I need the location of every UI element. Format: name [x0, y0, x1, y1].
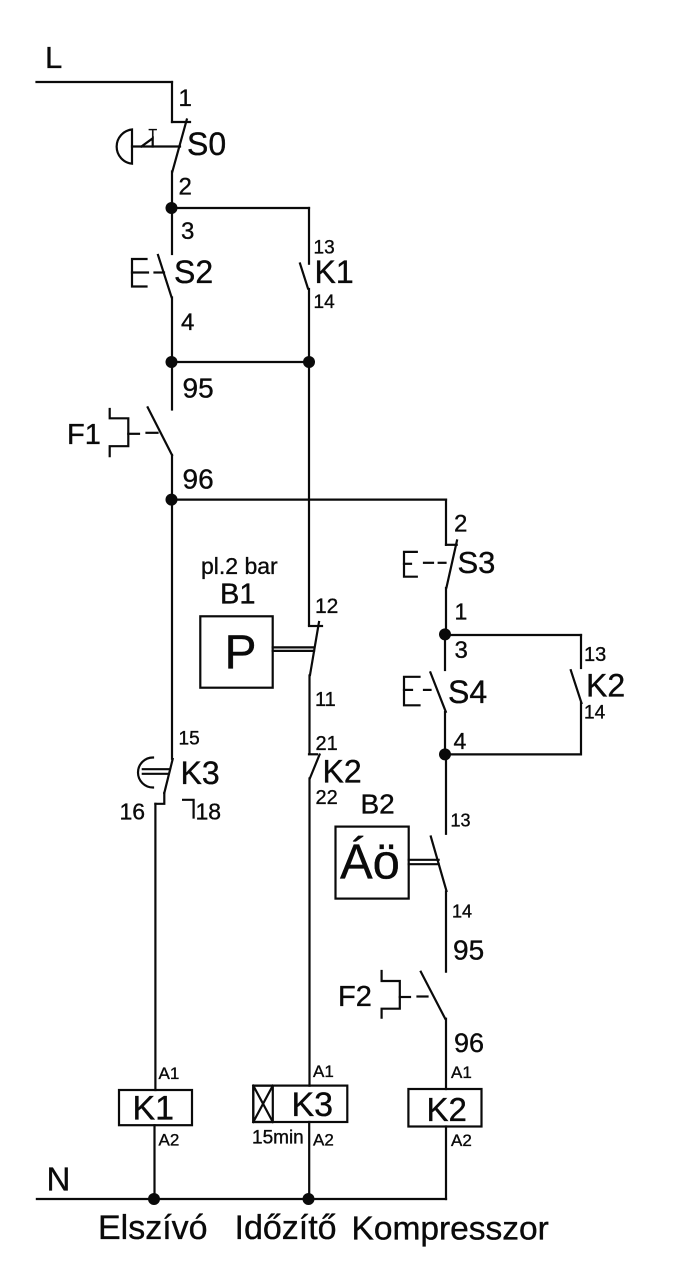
wire to S3 branch: [172, 499, 446, 501]
pin 13 K2: [584, 644, 606, 666]
label K3: [181, 755, 220, 791]
wire K1 top terminal: [308, 208, 310, 264]
node junction 3: [439, 628, 451, 640]
svg-text:A1: A1: [313, 1062, 334, 1081]
mushroom head actuator S0: [117, 130, 180, 164]
svg-text:L: L: [45, 40, 62, 75]
pin 13 K1: [314, 238, 335, 259]
wire B2 to F2: [445, 892, 447, 972]
wire N rail: [37, 1198, 446, 1200]
wire branch to K1: [172, 207, 309, 209]
pin 13 B2: [451, 811, 471, 831]
svg-text:A2: A2: [313, 1131, 334, 1150]
label K2 middle: [323, 754, 362, 790]
node junction 4: [439, 748, 451, 760]
wire F1 top terminal: [171, 362, 173, 410]
svg-text:15: 15: [179, 728, 200, 749]
label S3: [458, 545, 496, 580]
actuator S2: [132, 259, 164, 287]
svg-text:pl.2 bar: pl.2 bar: [201, 553, 278, 579]
wire B2 contact top terminal: [445, 754, 447, 833]
svg-text:P: P: [225, 627, 257, 680]
svg-text:96: 96: [454, 1028, 484, 1058]
wire S4 top terminal: [444, 635, 446, 670]
label S2: [174, 254, 213, 290]
pin 12: [315, 595, 338, 618]
svg-text:1: 1: [455, 599, 468, 625]
svg-text:22: 22: [316, 787, 338, 809]
svg-text:4: 4: [181, 309, 194, 336]
node N-K3: [303, 1193, 315, 1205]
label pl.2 bar: [201, 553, 278, 579]
pin 14 K1: [314, 292, 336, 313]
svg-text:21: 21: [316, 733, 338, 755]
coil K3 timer: [253, 1086, 347, 1124]
pin 95 F2: [453, 934, 484, 965]
label B1: [220, 579, 255, 611]
svg-text:3: 3: [455, 637, 468, 664]
wire S2 bottom terminal: [171, 298, 173, 363]
svg-text:15min: 15min: [252, 1128, 304, 1149]
label B2: [361, 789, 395, 820]
pin 96 F1: [183, 464, 214, 495]
coil K1: [119, 1090, 192, 1128]
wire L rail: [37, 81, 173, 83]
label T: [149, 126, 158, 142]
wire S3 bottom terminal: [445, 588, 447, 634]
pin 22: [316, 787, 338, 809]
wire join bar: [172, 361, 309, 363]
pin 3 S4: [455, 637, 468, 664]
svg-text:Kompresszor: Kompresszor: [352, 1211, 549, 1248]
node junction 96: [166, 494, 178, 506]
pin A1 K1: [159, 1064, 180, 1083]
svg-text:Elszívó: Elszívó: [98, 1209, 208, 1247]
wire K2 aux bottom terminal: [445, 703, 581, 754]
wire K3 contact bottom to K1 coil: [154, 804, 156, 1090]
svg-text:K2: K2: [323, 754, 362, 790]
svg-text:A1: A1: [451, 1063, 472, 1082]
svg-text:16: 16: [120, 799, 146, 825]
time delay symbol K3: [138, 758, 169, 788]
contact F1 (NC thermal overload): [148, 407, 172, 455]
wire between B1 and K2 contact: [308, 676, 310, 754]
svg-text:F2: F2: [338, 981, 372, 1013]
pin 21: [316, 733, 338, 755]
label N: [47, 1161, 71, 1198]
coil K2: [408, 1089, 481, 1128]
pin 11: [315, 689, 336, 711]
svg-text:3: 3: [181, 218, 194, 245]
wire S0 top terminal: [171, 82, 173, 122]
node L label: [45, 40, 62, 75]
label 15min: [252, 1128, 304, 1149]
svg-text:B2: B2: [361, 789, 395, 820]
contact K2 13-14 (NO): [571, 670, 582, 703]
label Időzítő: [235, 1209, 337, 1247]
svg-text:2: 2: [454, 511, 467, 538]
svg-text:14: 14: [452, 901, 472, 921]
pin A2 K1: [159, 1131, 180, 1150]
svg-text:K3: K3: [292, 1086, 334, 1124]
mechanical link B2: [409, 860, 439, 864]
svg-text:2: 2: [179, 174, 192, 201]
pin 95 F1: [183, 373, 214, 404]
svg-text:12: 12: [315, 595, 338, 618]
actuator F2 overload element: [382, 971, 428, 1018]
contact F2 (NC thermal overload): [421, 972, 445, 1019]
pin A1 K2: [451, 1063, 472, 1082]
svg-text:4: 4: [454, 728, 467, 754]
svg-text:K2: K2: [586, 668, 625, 704]
node join left: [166, 356, 178, 368]
svg-text:F1: F1: [67, 419, 101, 451]
svg-text:S0: S0: [187, 126, 226, 162]
svg-text:18: 18: [196, 799, 222, 825]
node join right: [303, 356, 315, 368]
svg-text:A1: A1: [159, 1064, 180, 1083]
pin 4: [181, 309, 194, 336]
pin 2: [179, 174, 192, 201]
pin 1: [179, 85, 192, 112]
contact B1 (pressure, NC): [309, 622, 322, 675]
svg-text:B1: B1: [220, 579, 255, 611]
pressure switch B1 box: [200, 616, 272, 687]
label S0: [187, 126, 226, 162]
pin 14 B2: [452, 901, 472, 921]
flow switch B2 box: [336, 827, 409, 899]
pin 4 S4: [454, 728, 467, 754]
pin 3: [181, 218, 194, 245]
contact B2 (NO flow): [431, 837, 447, 892]
svg-text:S4: S4: [448, 674, 487, 710]
pin 14 K2: [584, 702, 606, 723]
svg-text:Áö: Áö: [340, 836, 400, 890]
wire K1 coil to N: [153, 1125, 155, 1199]
wire F1 bottom terminal: [171, 455, 173, 500]
actuator F1 overload element: [110, 409, 158, 456]
contact S0 (NC mushroom pushbutton): [172, 120, 190, 172]
svg-text:N: N: [47, 1161, 71, 1198]
pin 1 S3: [455, 599, 468, 625]
actuator S3: [404, 552, 446, 577]
svg-text:K2: K2: [427, 1091, 467, 1128]
wire S2 top terminal: [171, 208, 173, 254]
node junction 2: [166, 202, 178, 214]
svg-text:S3: S3: [458, 545, 496, 580]
svg-text:95: 95: [183, 373, 214, 404]
wire K2 aux top terminal: [580, 635, 582, 668]
svg-text:Időzítő: Időzítő: [235, 1209, 337, 1247]
contact K1 (NO): [300, 264, 308, 289]
wire F2 bottom terminal: [445, 1019, 447, 1089]
wire K3 coil to N: [308, 1122, 310, 1199]
svg-text:96: 96: [183, 464, 214, 495]
svg-text:1: 1: [179, 85, 192, 112]
pin 96 F2: [454, 1028, 484, 1058]
pin A2 K2: [451, 1131, 472, 1150]
svg-text:13: 13: [584, 644, 606, 666]
svg-text:A2: A2: [451, 1131, 472, 1150]
label Elszívó: [98, 1209, 208, 1247]
label S4: [448, 674, 487, 710]
svg-text:T: T: [149, 126, 158, 142]
wire branch to K2 aux: [445, 634, 581, 636]
label Kompresszor: [352, 1211, 549, 1248]
label F1: [67, 419, 101, 451]
pin 16: [120, 799, 146, 825]
svg-text:13: 13: [451, 811, 471, 831]
pin A1 K3: [313, 1062, 334, 1081]
node N-K1: [148, 1193, 160, 1205]
label F2: [338, 981, 372, 1013]
contact K2 21-22 (NC): [309, 754, 320, 778]
pin A2 K3: [313, 1131, 334, 1150]
actuator S4: [404, 677, 431, 706]
wire K2 coil to N: [445, 1127, 447, 1200]
terminal 18 hook: [183, 800, 194, 818]
wire middle branch upper: [308, 362, 310, 625]
svg-text:14: 14: [584, 702, 606, 723]
svg-text:A2: A2: [159, 1131, 180, 1150]
svg-text:95: 95: [453, 934, 484, 965]
label K1: [315, 254, 354, 290]
contact S3 (NC pushbutton): [446, 540, 457, 587]
wire K3 contact top terminal: [171, 500, 173, 759]
wire S3 top terminal: [445, 500, 447, 545]
svg-text:K1: K1: [133, 1090, 175, 1128]
wire S0 bottom terminal: [171, 172, 173, 209]
svg-text:K3: K3: [181, 755, 220, 791]
contact S2 (NO pushbutton): [158, 255, 172, 297]
svg-text:11: 11: [315, 689, 336, 711]
contact S4 (NO pushbutton): [430, 672, 445, 711]
label K2 right: [586, 668, 625, 704]
wire S4 bottom terminal: [444, 712, 446, 754]
pin 15: [179, 728, 200, 749]
wire middle branch lower: [308, 779, 310, 1086]
pin 2 S3: [454, 511, 467, 538]
svg-text:14: 14: [314, 292, 336, 313]
mechanical link B1: [273, 647, 314, 651]
pin 18: [196, 799, 222, 825]
svg-text:S2: S2: [174, 254, 213, 290]
contact K3 (timed changeover): [155, 759, 172, 804]
wire K1 bottom terminal: [308, 289, 310, 362]
svg-text:K1: K1: [315, 254, 354, 290]
